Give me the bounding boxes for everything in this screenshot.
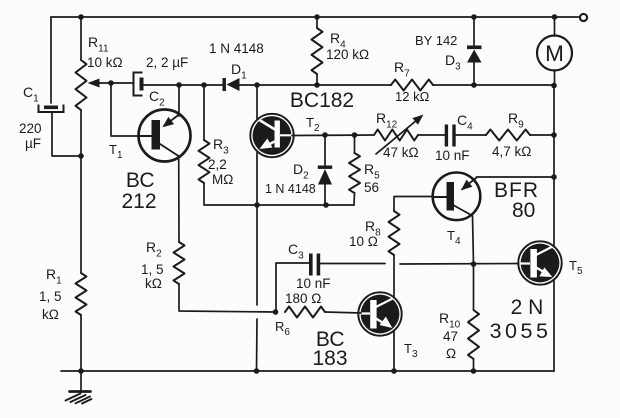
diode D1 — [223, 78, 240, 91]
label R1 — [46, 266, 62, 287]
svg-text:C1: C1 — [23, 84, 39, 105]
diode D2 — [318, 166, 332, 206]
R12 arrow — [376, 115, 424, 155]
svg-text:kΩ: kΩ — [145, 276, 162, 291]
svg-text:R11: R11 — [88, 34, 109, 55]
wire R5 bottom — [353, 193, 356, 205]
wire right rail upper — [553, 85, 555, 246]
node junction top rail / R4 — [314, 14, 320, 20]
wire C1 bottom to left column — [52, 112, 81, 156]
svg-text:10 nF: 10 nF — [296, 276, 331, 291]
label R10 — [439, 310, 461, 331]
wire C3 left / drop to R6 — [276, 263, 310, 312]
resistor R5 — [349, 153, 360, 193]
wire R10 bottom — [473, 359, 475, 371]
label BFR 80 — [494, 179, 539, 222]
svg-text:183: 183 — [312, 347, 347, 370]
value label 56 — [364, 180, 379, 195]
svg-text:T2: T2 — [306, 115, 320, 134]
svg-text:M: M — [545, 41, 564, 66]
label C1 — [23, 84, 39, 105]
svg-text:R5: R5 — [364, 161, 380, 182]
capacitor C1 — [39, 105, 64, 113]
wire D1 to node B — [239, 84, 317, 86]
diode D3 — [467, 46, 482, 86]
svg-text:220: 220 — [19, 121, 42, 136]
value label 12 kOhm — [395, 89, 430, 104]
svg-text:2, 2 µF: 2, 2 µF — [146, 55, 188, 70]
label BC 183 — [312, 328, 347, 370]
wire D2 top — [324, 135, 326, 166]
transistor T5 (2N3055, filled NPN) — [518, 241, 561, 284]
capacitor C3 — [309, 254, 320, 276]
svg-text:C2: C2 — [149, 88, 165, 109]
node junction T4 collector / T5 base row — [471, 261, 477, 267]
svg-text:R2: R2 — [146, 239, 162, 260]
svg-text:C4: C4 — [457, 112, 473, 133]
node junction D2 top — [322, 132, 328, 138]
wire R5 top — [354, 135, 356, 153]
resistor R10 — [468, 310, 479, 359]
label D1 — [231, 61, 247, 82]
transistor T1 (BC212, open PNP) — [138, 110, 191, 162]
node junction D3 bottom — [471, 82, 477, 88]
resistor R6 — [285, 307, 325, 318]
svg-text:120 kΩ: 120 kΩ — [326, 47, 369, 62]
value label 47 Ohm — [443, 329, 458, 361]
svg-text:10 kΩ: 10 kΩ — [87, 55, 123, 70]
label R12 — [376, 110, 398, 131]
label BC 212 — [121, 169, 156, 213]
node junction C3 / R2 / R6 — [273, 309, 279, 315]
svg-text:212: 212 — [121, 190, 156, 213]
svg-text:C3: C3 — [288, 241, 304, 262]
label 2N 3055 — [490, 296, 552, 343]
value label 1 N 4148 (D2) — [265, 182, 316, 196]
resistor R3 — [199, 140, 210, 183]
motor M wires — [554, 17, 556, 85]
value label 220 uF — [19, 121, 42, 151]
value label 1 N 4148 (D1) — [209, 41, 264, 56]
wire R4 bottom — [316, 74, 318, 85]
svg-text:T3: T3 — [404, 341, 418, 360]
wire R4 top — [316, 17, 318, 28]
resistor R9 — [486, 130, 530, 141]
svg-text:T5: T5 — [569, 258, 583, 277]
node junction ground rail / R1 — [78, 368, 84, 374]
wire bottom ground rail — [61, 370, 554, 372]
node junction R9 / right rail — [551, 132, 557, 138]
node junction ground rail / T3 emitter — [391, 368, 397, 374]
wire R6 to T3 base — [325, 312, 361, 313]
value label 2,2 MOhm — [208, 157, 233, 187]
wire R8 bottom to T3 collector — [393, 255, 395, 298]
value label 10 kOhm — [87, 55, 123, 70]
svg-text:12 kΩ: 12 kΩ — [395, 89, 430, 104]
label R6 — [275, 319, 290, 338]
svg-text:Ω: Ω — [446, 346, 456, 361]
svg-text:1 N 4148: 1 N 4148 — [209, 41, 264, 56]
resistor R2 — [174, 242, 185, 284]
wire wiper down to T1 base — [111, 83, 138, 136]
wire R11 bottom to R1 top — [80, 110, 82, 273]
svg-text:R12: R12 — [376, 110, 398, 131]
node junction top rail / D3 — [471, 14, 477, 20]
wire R7 to motor bottom — [433, 84, 554, 86]
wire R8 top to T4 base — [394, 197, 432, 212]
wire R3 bottom / node row — [204, 183, 354, 205]
value label 10 Ohm — [349, 234, 378, 249]
svg-text:D3: D3 — [445, 52, 461, 73]
label T1 — [109, 142, 123, 161]
wire R10 top — [473, 264, 475, 310]
ground symbol — [66, 371, 92, 404]
svg-text:56: 56 — [364, 180, 379, 195]
value label 47 kOhm (R12) — [383, 145, 419, 160]
label T5 — [569, 258, 583, 277]
node junction wiper — [108, 80, 114, 86]
wire R9 to right rail — [530, 134, 554, 136]
svg-text:10 nF: 10 nF — [435, 148, 470, 163]
node junction R4 bottom — [314, 82, 320, 88]
label C4 — [457, 112, 473, 133]
node junction T4 emitter wire / rail — [551, 174, 557, 180]
value label 1,5 kOhm (R2) — [141, 262, 164, 291]
node junction top rail / motor — [552, 14, 558, 20]
svg-text:BC182: BC182 — [290, 89, 354, 112]
label C2 — [149, 88, 165, 109]
node junction ground rail / R10 — [471, 368, 477, 374]
wire T2 base row — [292, 134, 374, 137]
svg-text:1, 5: 1, 5 — [141, 262, 164, 277]
svg-text:R6: R6 — [275, 319, 290, 338]
node junction D2 bottom / row — [323, 202, 329, 208]
label D2 — [293, 161, 309, 182]
label C3 — [288, 241, 304, 262]
wire C3 right to T5 base (gap at crossover) — [321, 263, 519, 266]
wire T2 emitter drop — [256, 153, 258, 206]
label T3 — [404, 341, 418, 360]
resistor R4 — [312, 28, 323, 74]
label BC182 — [290, 89, 354, 112]
svg-text:R10: R10 — [439, 310, 461, 331]
transistor T4 (BFR80, open PNP) — [433, 173, 481, 221]
wire right rail lower — [553, 280, 555, 371]
svg-text:BY 142: BY 142 — [415, 33, 457, 48]
R11 wiper arrow — [88, 79, 112, 88]
label R2 — [146, 239, 162, 260]
value label 10 nF (C4) — [435, 148, 470, 163]
terminal (open circle, top right) — [580, 14, 587, 21]
wire C4 to R9 — [456, 134, 486, 136]
label R7 — [394, 59, 410, 80]
label R4 — [330, 30, 346, 51]
value label 2,2 uF — [146, 55, 188, 70]
node junction T1 emitter riser — [176, 82, 182, 88]
value label 10 nF (C3) — [296, 276, 331, 291]
label T2 — [306, 115, 320, 134]
node junction T2 emitter / row — [254, 202, 260, 208]
resistor R1 — [76, 273, 87, 315]
svg-text:2,2: 2,2 — [208, 157, 227, 172]
label D3 — [445, 52, 461, 73]
node junction motor bottom — [551, 83, 557, 89]
svg-text:180 Ω: 180 Ω — [285, 291, 321, 306]
svg-text:4,7 kΩ: 4,7 kΩ — [492, 144, 531, 159]
svg-text:R9: R9 — [508, 110, 524, 131]
motor M — [537, 36, 572, 71]
wire R1 bottom to ground rail — [80, 315, 82, 371]
svg-text:kΩ: kΩ — [42, 307, 59, 322]
node junction ground rail / T2 emitter — [254, 368, 260, 374]
wire T3 emitter to ground rail — [393, 331, 395, 372]
value label 1,5 kOhm (R1) — [39, 289, 62, 322]
label T4 — [447, 228, 461, 247]
svg-text:2 N: 2 N — [511, 296, 544, 319]
resistor R7 — [391, 80, 433, 91]
node junction R3 riser — [201, 82, 207, 88]
transistor T3 (BC183, filled NPN) — [358, 292, 401, 335]
svg-text:D2: D2 — [293, 161, 309, 182]
label R11 — [88, 34, 109, 55]
wire node A rail (C2 to D1) — [143, 84, 224, 86]
resistor R8 — [389, 211, 400, 255]
wire T2 emitter to ground rail (with crossover gap) — [256, 205, 259, 371]
capacitor C4 — [445, 125, 456, 147]
svg-text:T1: T1 — [109, 142, 123, 161]
wire R11 top feed — [80, 17, 82, 60]
svg-text:1 N 4148: 1 N 4148 — [265, 182, 316, 196]
wire T4 collector drop — [473, 216, 474, 264]
wire T4 emitter to rail — [477, 176, 555, 178]
svg-text:R7: R7 — [394, 59, 410, 80]
svg-text:47 kΩ: 47 kΩ — [383, 145, 419, 160]
svg-text:µF: µF — [25, 136, 41, 151]
svg-text:BC: BC — [126, 169, 155, 192]
wire T2 collector riser — [256, 85, 258, 119]
value label 4,7 kOhm — [492, 144, 531, 159]
svg-text:10 Ω: 10 Ω — [349, 234, 378, 249]
capacitor C2 — [134, 73, 144, 96]
svg-text:80: 80 — [512, 199, 535, 222]
svg-text:MΩ: MΩ — [212, 172, 233, 187]
label R5 — [364, 161, 380, 182]
wire T1 emitter riser — [178, 85, 180, 116]
label R9 — [508, 110, 524, 131]
wire D3 top — [473, 17, 475, 46]
svg-text:R3: R3 — [213, 136, 229, 157]
wire wiper to C2 — [111, 82, 133, 84]
label BY142 — [415, 33, 457, 48]
resistor R11 (potentiometer) — [76, 60, 87, 110]
wire R3 top — [203, 85, 205, 140]
node junction D1 / T2 collector — [254, 82, 260, 88]
wire top supply rail — [51, 16, 579, 18]
svg-text:3055: 3055 — [490, 319, 552, 343]
svg-text:1, 5: 1, 5 — [39, 289, 62, 304]
wire node B to R7 — [317, 84, 391, 86]
wire R2 bottom to R6 junction — [179, 284, 275, 312]
wire R12 to C4 — [418, 134, 446, 136]
svg-text:47: 47 — [443, 329, 458, 344]
value label 180 Ohm — [285, 291, 321, 306]
potentiometer R12 — [374, 130, 418, 141]
svg-text:R1: R1 — [46, 266, 62, 287]
wire left branch down to C1 — [50, 17, 52, 103]
label R8 — [365, 218, 381, 239]
node junction C1 / R11-R1 column — [78, 153, 84, 159]
node junction top rail / R11 — [78, 14, 84, 20]
svg-text:T4: T4 — [447, 228, 461, 247]
label R3 — [213, 136, 229, 157]
transistor T2 (BC182, filled NPN) — [250, 114, 293, 157]
node junction R5 top — [352, 132, 358, 138]
value label 120 kOhm — [326, 47, 369, 62]
wire T1 collector to R2 — [178, 156, 180, 242]
